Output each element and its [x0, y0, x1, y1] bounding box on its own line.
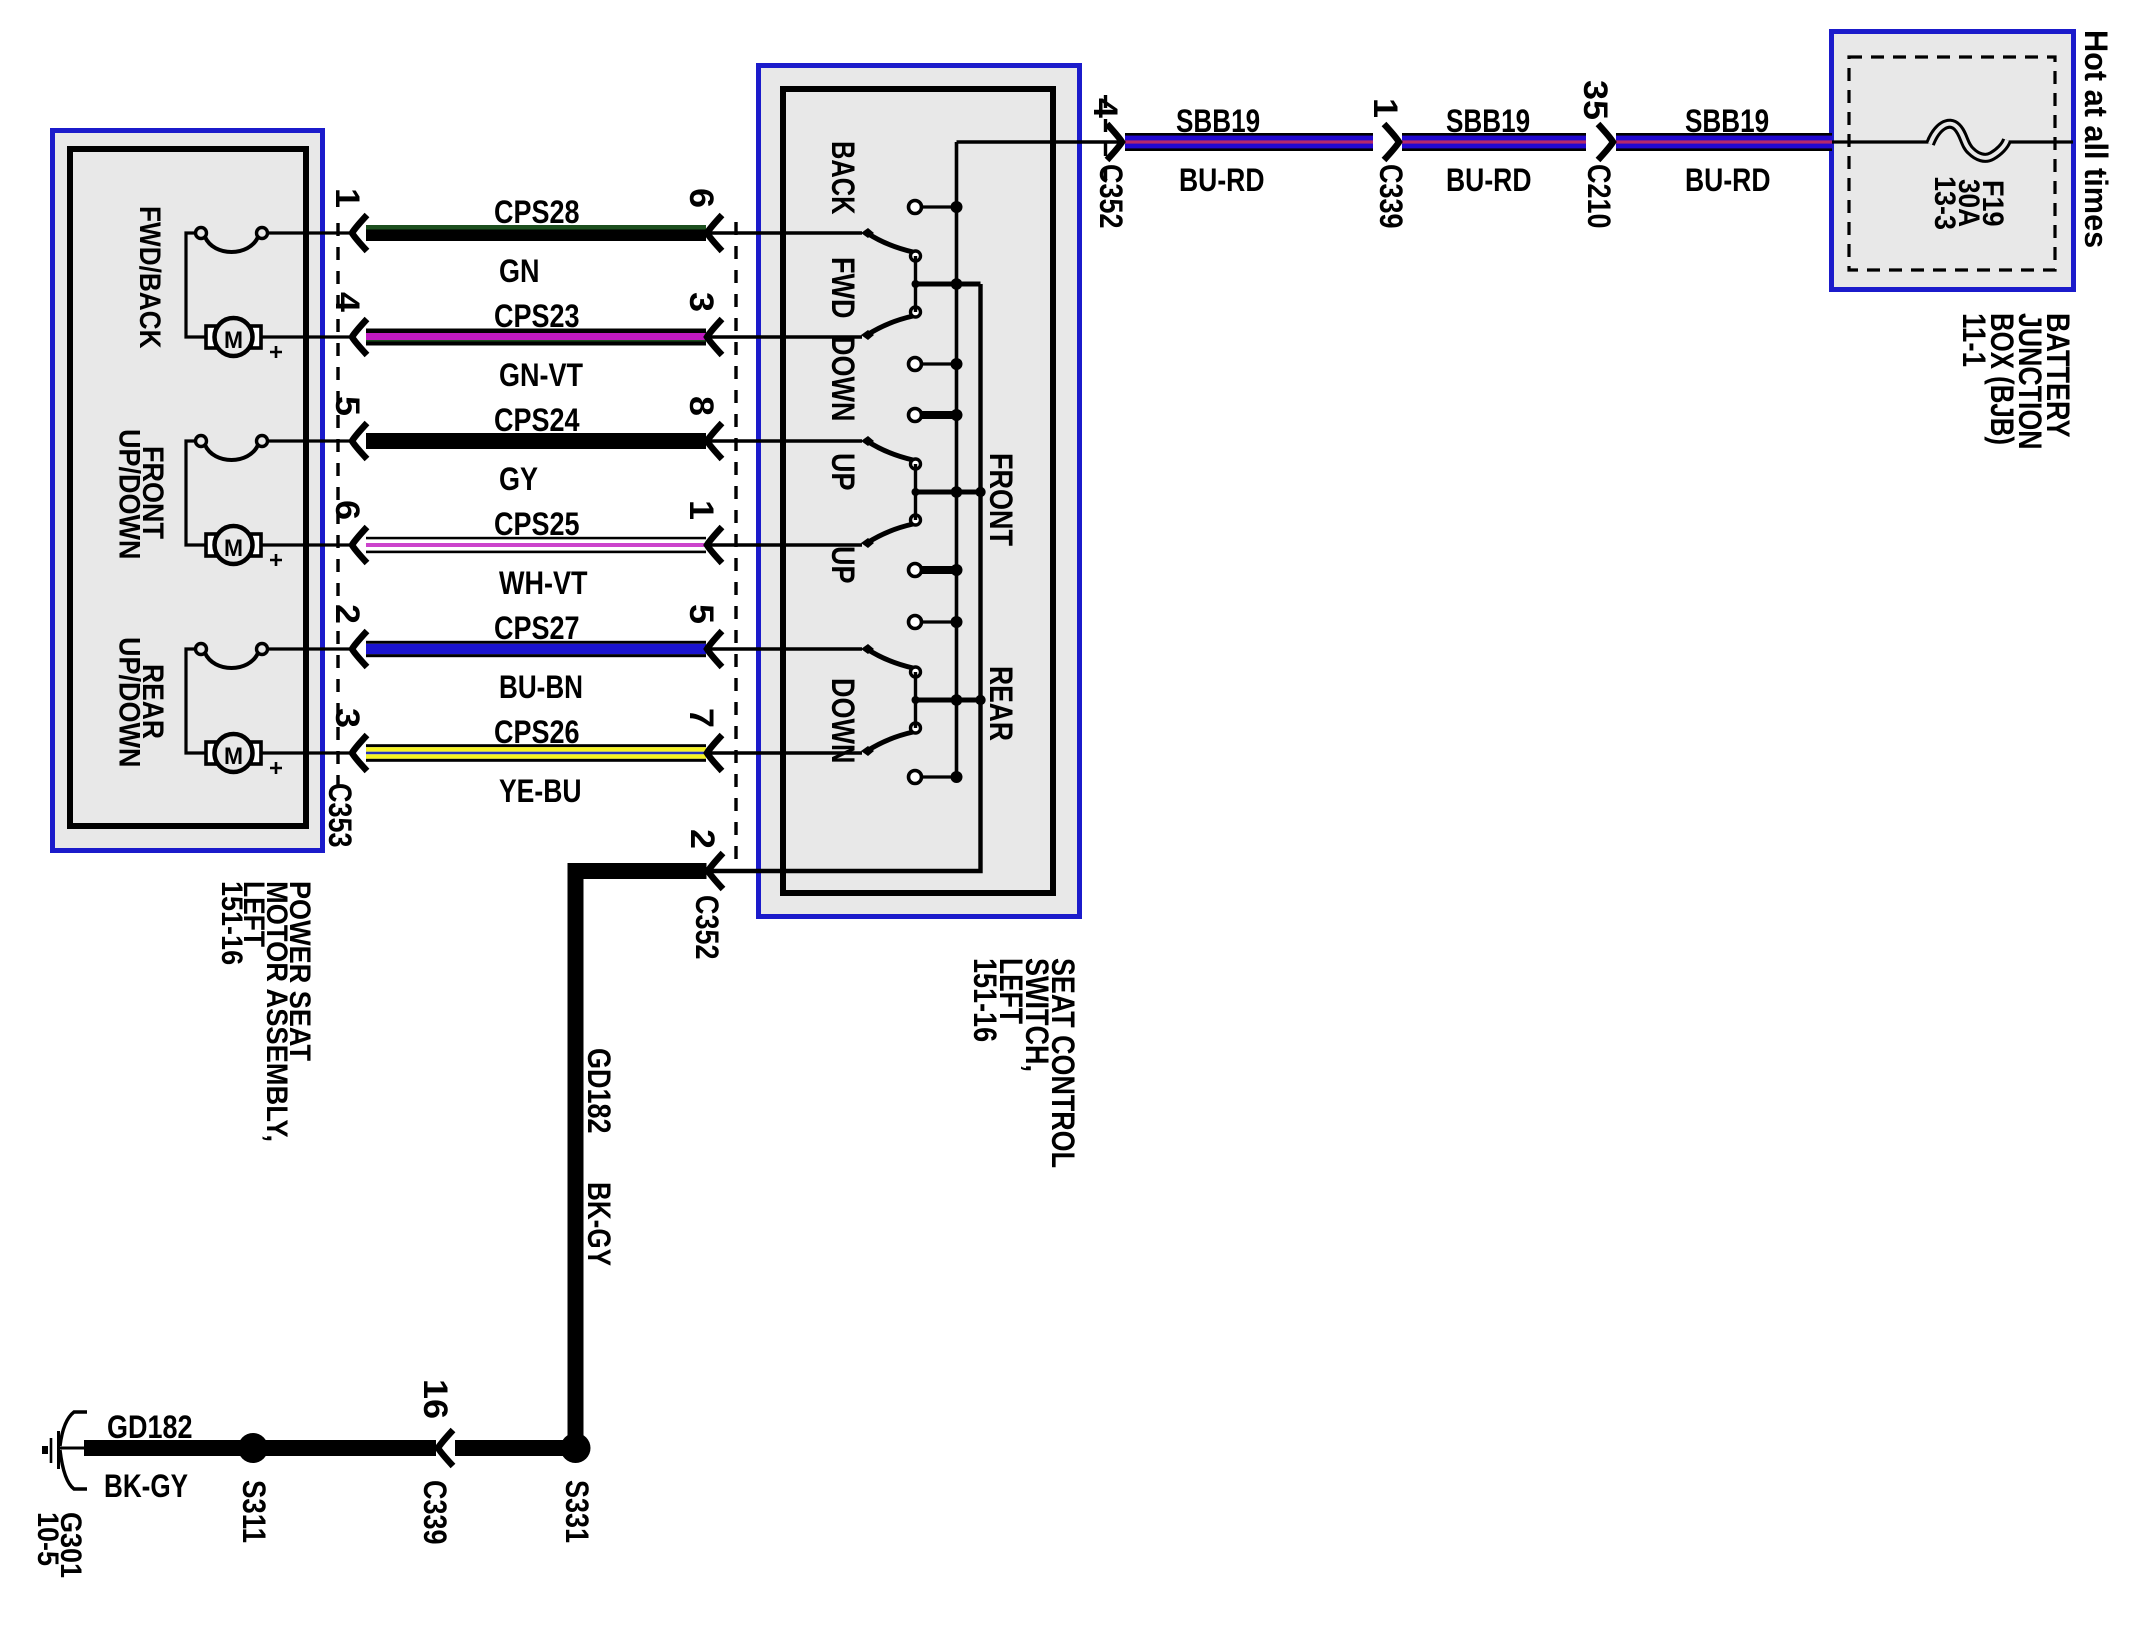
svg-text:BU-RD: BU-RD: [1685, 162, 1771, 198]
svg-text:2: 2: [683, 829, 721, 849]
switch lead wires: [709, 231, 862, 234]
svg-text:CPS28: CPS28: [494, 194, 580, 230]
svg-text:3: 3: [328, 708, 366, 728]
svg-text:BK-GY: BK-GY: [104, 1468, 188, 1504]
ground symbol G301: [42, 1412, 87, 1489]
wire SBB19 BU-RD segment 3: [1616, 133, 1832, 151]
C353 pin 1 arrow: [352, 215, 367, 251]
svg-text:S331: S331: [559, 1480, 595, 1543]
switch feed wire to pin 4: [957, 140, 1123, 144]
C352 pin 8 arrow: [707, 423, 722, 459]
connector C339 pin 16: [438, 1430, 453, 1466]
C352 label (left): [689, 895, 725, 960]
svg-text:C352: C352: [689, 895, 725, 960]
svg-text:CPS23: CPS23: [494, 298, 580, 334]
svg-text:UP/DOWN: UP/DOWN: [113, 637, 146, 768]
svg-text:CPS24: CPS24: [494, 402, 580, 438]
C353 label: [322, 783, 358, 848]
wire CPS25 WH-VT (pin6 C353 to pin1 C352): [366, 537, 706, 553]
C352 pin 3 arrow: [707, 319, 722, 355]
svg-text:C352: C352: [1093, 164, 1129, 229]
C353 pin 6 arrow: [352, 527, 367, 563]
svg-text:M: M: [224, 327, 243, 354]
svg-text:BU-BN: BU-BN: [499, 669, 583, 705]
wire inside BJB: [1832, 140, 1930, 143]
switch SW1 FWD/BACK rocker: [861, 201, 981, 371]
svg-text:UP: UP: [825, 453, 861, 491]
svg-text:SBB19: SBB19: [1685, 103, 1769, 139]
svg-text:DOWN: DOWN: [825, 678, 861, 764]
svg-text:BU-RD: BU-RD: [1179, 162, 1265, 198]
svg-text:S311: S311: [236, 1480, 272, 1543]
svg-text:GN-VT: GN-VT: [499, 357, 583, 393]
motor M3 REAR UP/DOWN: [186, 644, 352, 775]
svg-text:1: 1: [328, 188, 366, 208]
svg-text:8: 8: [682, 396, 720, 416]
wire GD182 (S331 to C339): [455, 1440, 584, 1456]
wire SBB19 BU-RD segment 2: [1402, 133, 1586, 151]
svg-text:FRONT: FRONT: [983, 453, 1019, 546]
FRONT rail label: [983, 453, 1019, 546]
Hot at all times label: [2078, 30, 2114, 248]
motor M1 FWD/BACK: [186, 228, 352, 359]
splice S311: [238, 1433, 268, 1463]
svg-text:M: M: [224, 535, 243, 562]
svg-text:C353: C353: [322, 783, 358, 848]
GD182 BK-GY vertical labels: [581, 1048, 617, 1266]
wire GD182 BK-GY (pin2 to S331): [568, 863, 707, 879]
motor M2 label: [113, 429, 170, 560]
switch position labels: [825, 141, 861, 764]
motor M3 label: [113, 637, 170, 768]
switch ground rail: [710, 284, 981, 871]
svg-text:151-16: 151-16: [215, 881, 248, 965]
svg-text:7: 7: [682, 708, 720, 728]
svg-text:SBB19: SBB19: [1446, 103, 1530, 139]
svg-text:GY: GY: [499, 461, 538, 497]
C352 pin 1 arrow: [707, 527, 722, 563]
battery junction box (BJB): [1832, 32, 2074, 290]
wire CPS28 GN (pin1 C353 to pin6 C352): [366, 225, 706, 241]
GD182 BK-GY labels at ground: [104, 1409, 193, 1504]
svg-text:3: 3: [682, 292, 720, 312]
svg-text:1: 1: [1366, 98, 1404, 118]
svg-text:UP/DOWN: UP/DOWN: [113, 429, 146, 560]
fuse value label F19 30A 13-3: [1928, 176, 2009, 230]
BJB label: [1956, 313, 2076, 450]
seat control switch box: [759, 66, 1080, 917]
connector C353 dashed line: [336, 223, 339, 788]
pin 2 arrow C352: [708, 853, 723, 889]
svg-text:SBB19: SBB19: [1176, 103, 1260, 139]
svg-text:151-16: 151-16: [967, 958, 1003, 1042]
svg-text:BU-RD: BU-RD: [1446, 162, 1532, 198]
connector C352 dashed line: [734, 222, 737, 866]
svg-text:Hot at all times: Hot at all times: [2078, 30, 2114, 248]
svg-text:GD182: GD182: [107, 1409, 193, 1445]
svg-text:WH-VT: WH-VT: [499, 565, 588, 601]
wire GD182 (C339 to ground): [84, 1440, 436, 1456]
svg-text:GD182: GD182: [581, 1048, 617, 1134]
motor assembly label: [215, 881, 316, 1142]
motor M2 FRONT UP/DOWN: [186, 436, 352, 567]
svg-text:2: 2: [328, 604, 366, 624]
switch SW3 REAR UP/DOWN rocker: [861, 616, 986, 784]
motor M1 label: [133, 206, 166, 349]
connector C210 pin 35: [1598, 124, 1613, 160]
wire CPS26 YE-BU (pin3 C353 to pin7 C352): [366, 744, 706, 762]
fuse F19 30A: [1930, 124, 2007, 158]
svg-text:16: 16: [416, 1379, 454, 1419]
svg-text:CPS26: CPS26: [494, 714, 580, 750]
switch power rail: [955, 142, 959, 777]
wire SBB19 BU-RD segment 1: [1125, 133, 1373, 151]
C352 pin 5 arrow: [707, 631, 722, 667]
C352 pin 7 arrow: [707, 735, 722, 771]
svg-text:BK-GY: BK-GY: [581, 1182, 617, 1266]
svg-text:11-1: 11-1: [1956, 313, 1992, 367]
wire CPS27 BU-BN (pin2 C353 to pin5 C352): [366, 641, 706, 657]
REAR rail label: [983, 666, 1019, 741]
svg-text:13-3: 13-3: [1928, 176, 1961, 230]
C353 pin 2 arrow: [352, 631, 367, 667]
svg-text:10-5: 10-5: [31, 1512, 64, 1566]
svg-text:GN: GN: [499, 253, 540, 289]
ground G301 label: [31, 1512, 87, 1578]
svg-text:YE-BU: YE-BU: [499, 773, 582, 809]
svg-text:BACK: BACK: [825, 141, 861, 215]
connector C352 pin 4: [1104, 95, 1107, 190]
C353 pin 3 arrow: [352, 735, 367, 771]
C352 pin 6 arrow: [707, 215, 722, 251]
wire CPS23 GN-VT (pin4 C353 to pin3 C352): [366, 329, 706, 346]
svg-text:FWD/BACK: FWD/BACK: [133, 206, 166, 349]
svg-text:M: M: [224, 743, 243, 770]
C353 pin 4 arrow: [352, 319, 367, 355]
connector C339 pin 1: [1384, 124, 1399, 160]
svg-text:CPS25: CPS25: [494, 506, 580, 542]
svg-text:FWD: FWD: [825, 257, 861, 319]
svg-text:6: 6: [682, 188, 720, 208]
svg-text:C339: C339: [1373, 164, 1409, 229]
svg-text:C339: C339: [417, 1480, 453, 1545]
svg-text:C210: C210: [1581, 164, 1617, 229]
C353 pin 5 arrow: [352, 423, 367, 459]
svg-text:UP: UP: [825, 546, 861, 584]
svg-text:4: 4: [328, 292, 366, 312]
svg-text:5: 5: [328, 396, 366, 416]
svg-text:6: 6: [328, 500, 366, 520]
switch label: [967, 958, 1081, 1168]
svg-text:REAR: REAR: [983, 666, 1019, 741]
svg-text:1: 1: [682, 500, 720, 520]
splice S331: [561, 1433, 591, 1463]
wire CPS24 GY (pin5 C353 to pin8 C352): [366, 433, 706, 449]
svg-text:CPS27: CPS27: [494, 610, 580, 646]
svg-text:4: 4: [1086, 98, 1124, 118]
svg-text:35: 35: [1576, 80, 1614, 120]
svg-text:5: 5: [682, 604, 720, 624]
power seat motor assembly box: [53, 131, 323, 851]
switch SW2 FRONT UP/DOWN rocker: [861, 409, 986, 577]
svg-text:DOWN: DOWN: [825, 336, 861, 422]
